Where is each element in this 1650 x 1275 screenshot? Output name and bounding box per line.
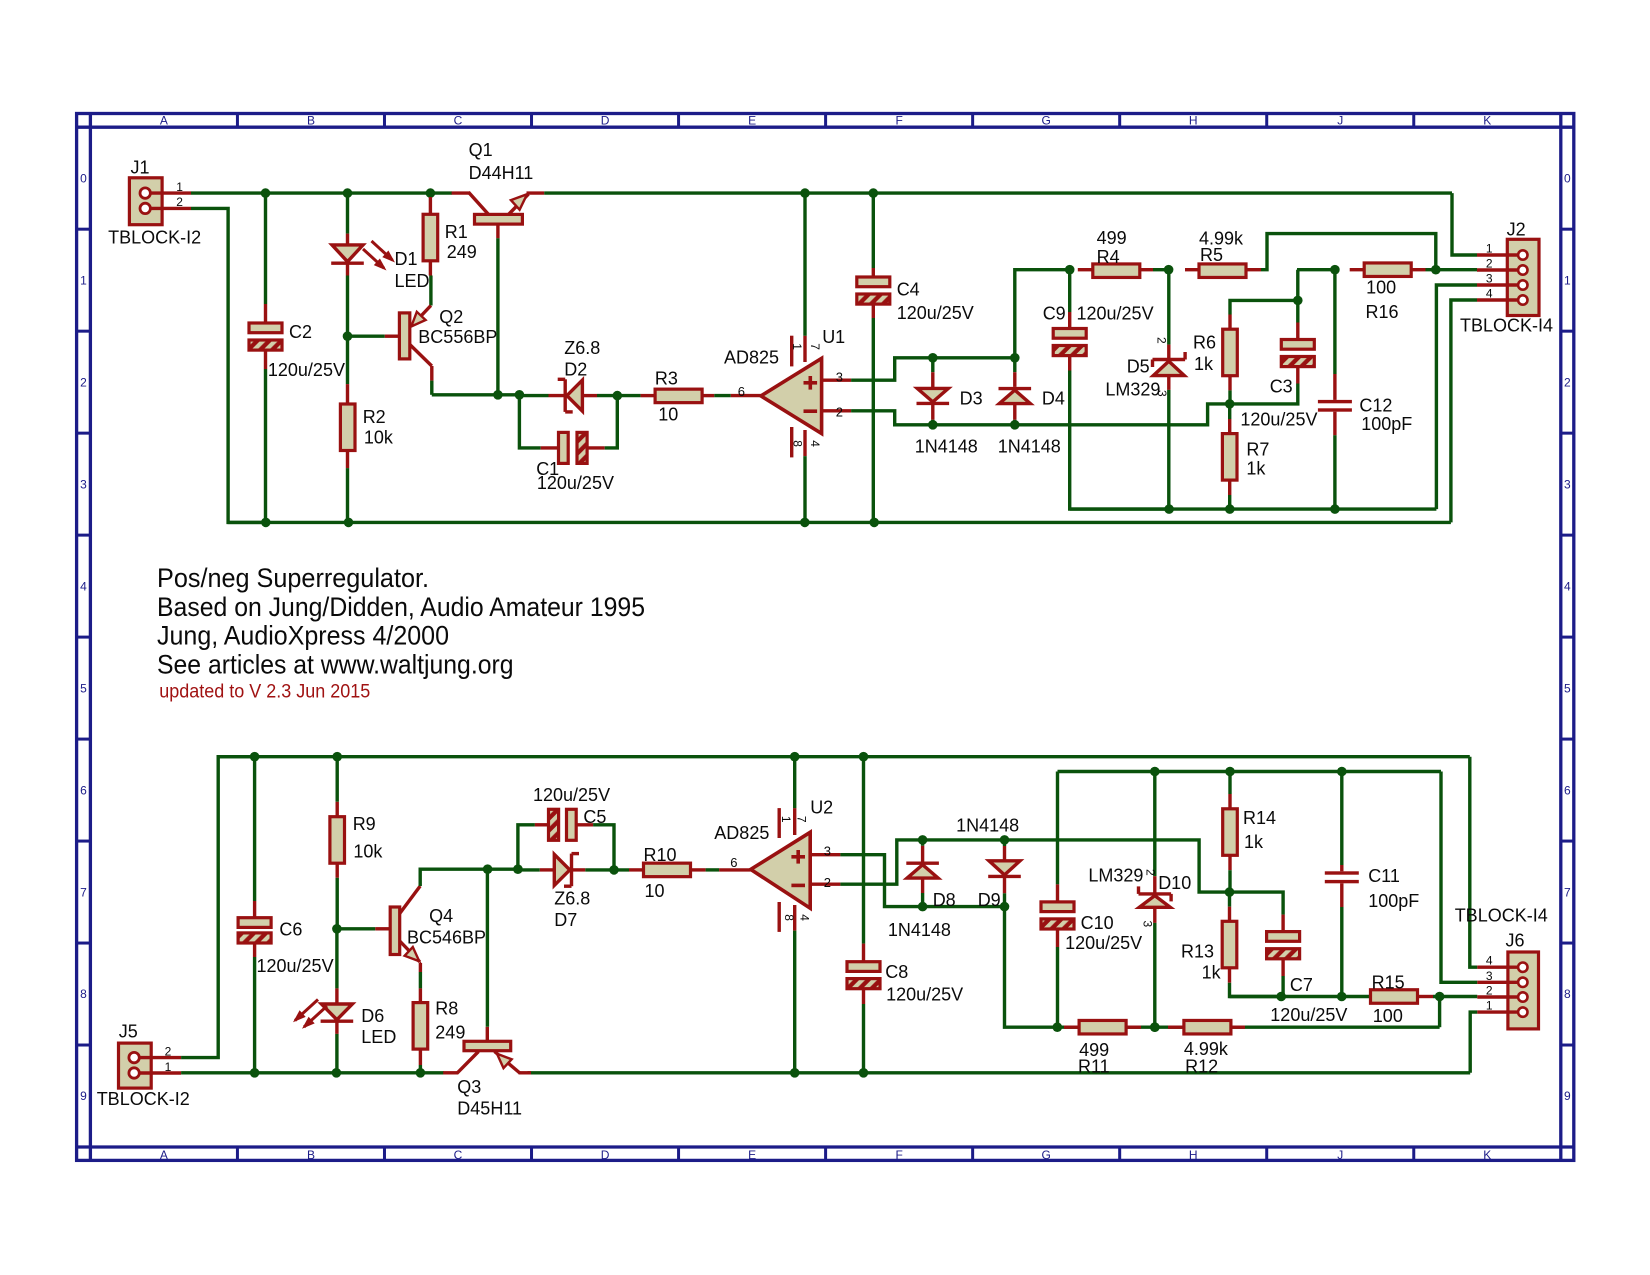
svg-text:R5: R5: [1200, 245, 1223, 265]
svg-text:D7: D7: [554, 910, 577, 930]
svg-text:0: 0: [80, 171, 87, 185]
svg-text:C2: C2: [289, 322, 312, 342]
svg-text:H: H: [1189, 1148, 1198, 1162]
svg-text:updated to V 2.3 Jun 2015: updated to V 2.3 Jun 2015: [159, 682, 370, 703]
svg-text:D44H11: D44H11: [469, 163, 534, 183]
svg-text:D1: D1: [395, 249, 418, 269]
svg-text:6: 6: [730, 855, 737, 870]
svg-text:D8: D8: [933, 890, 956, 910]
svg-text:R4: R4: [1097, 247, 1120, 267]
svg-text:AD825: AD825: [714, 823, 769, 843]
svg-text:3: 3: [80, 477, 87, 491]
svg-text:1N4148: 1N4148: [888, 920, 951, 940]
svg-text:1: 1: [165, 1060, 172, 1074]
svg-text:5: 5: [1564, 681, 1571, 695]
svg-text:120u/25V: 120u/25V: [533, 785, 610, 805]
svg-text:C: C: [454, 1148, 463, 1162]
svg-text:Based on Jung/Didden, Audio Am: Based on Jung/Didden, Audio Amateur 1995: [157, 592, 645, 622]
svg-text:J6: J6: [1506, 931, 1525, 951]
svg-text:C12: C12: [1359, 396, 1392, 416]
svg-text:Q2: Q2: [439, 307, 463, 327]
svg-text:R1: R1: [445, 222, 468, 242]
svg-text:D: D: [601, 1148, 610, 1162]
svg-text:K: K: [1483, 1148, 1491, 1162]
svg-text:1N4148: 1N4148: [956, 815, 1019, 835]
svg-text:3: 3: [836, 370, 843, 385]
svg-text:D45H11: D45H11: [457, 1099, 522, 1119]
svg-text:8: 8: [782, 914, 796, 921]
svg-text:TBLOCK-I4: TBLOCK-I4: [1455, 906, 1548, 926]
svg-text:C8: C8: [885, 962, 908, 982]
svg-text:100: 100: [1366, 278, 1396, 298]
svg-text:D5: D5: [1127, 357, 1150, 377]
svg-text:F: F: [895, 1148, 902, 1162]
svg-text:1k: 1k: [1244, 832, 1264, 852]
svg-text:C5: C5: [583, 807, 606, 827]
svg-text:7: 7: [808, 343, 822, 350]
svg-text:D: D: [601, 114, 610, 128]
svg-text:U1: U1: [822, 327, 845, 347]
svg-text:J: J: [1337, 114, 1343, 128]
svg-text:100pF: 100pF: [1368, 891, 1419, 911]
svg-text:TBLOCK-I2: TBLOCK-I2: [97, 1089, 190, 1109]
svg-text:LM329: LM329: [1088, 866, 1143, 886]
svg-text:2: 2: [824, 875, 831, 890]
svg-text:E: E: [748, 114, 756, 128]
svg-text:R10: R10: [644, 845, 677, 865]
svg-text:2: 2: [1144, 869, 1158, 876]
svg-text:A: A: [160, 1148, 168, 1162]
svg-text:C10: C10: [1081, 913, 1114, 933]
svg-text:4: 4: [1486, 954, 1493, 968]
svg-text:9: 9: [80, 1089, 87, 1103]
svg-text:J: J: [1337, 1148, 1343, 1162]
svg-text:10k: 10k: [353, 842, 383, 862]
svg-text:R16: R16: [1366, 302, 1399, 322]
svg-text:8: 8: [791, 440, 805, 447]
svg-text:1N4148: 1N4148: [998, 436, 1061, 456]
svg-text:5: 5: [80, 681, 87, 695]
svg-text:120u/25V: 120u/25V: [1240, 410, 1317, 430]
svg-text:F: F: [895, 114, 902, 128]
svg-text:1: 1: [1486, 242, 1493, 256]
svg-text:499: 499: [1097, 228, 1127, 248]
svg-text:3: 3: [1486, 272, 1493, 286]
svg-text:10: 10: [645, 881, 665, 901]
svg-text:8: 8: [1564, 987, 1571, 1001]
svg-text:R14: R14: [1243, 808, 1276, 828]
svg-text:A: A: [160, 114, 168, 128]
svg-text:D9: D9: [978, 890, 1001, 910]
svg-text:10: 10: [658, 405, 678, 425]
svg-text:4: 4: [798, 914, 812, 921]
svg-text:H: H: [1189, 114, 1198, 128]
svg-text:1: 1: [779, 816, 793, 823]
svg-text:D10: D10: [1158, 873, 1191, 893]
svg-text:C9: C9: [1043, 304, 1066, 324]
svg-text:TBLOCK-I4: TBLOCK-I4: [1460, 316, 1553, 336]
svg-text:9: 9: [1564, 1089, 1571, 1103]
svg-text:1k: 1k: [1202, 963, 1222, 983]
svg-text:G: G: [1041, 1148, 1050, 1162]
svg-text:See articles at www.waltjung.o: See articles at www.waltjung.org: [157, 649, 514, 679]
svg-text:1k: 1k: [1194, 354, 1214, 374]
svg-text:C11: C11: [1368, 866, 1400, 886]
svg-text:1: 1: [1564, 273, 1571, 287]
svg-text:2: 2: [1486, 984, 1493, 998]
svg-text:R2: R2: [363, 407, 386, 427]
svg-text:1: 1: [1486, 999, 1493, 1013]
svg-text:E: E: [748, 1148, 756, 1162]
svg-text:3: 3: [1141, 921, 1155, 928]
svg-text:2: 2: [176, 195, 183, 209]
svg-text:120u/25V: 120u/25V: [1270, 1005, 1347, 1025]
svg-text:4: 4: [80, 579, 87, 593]
svg-text:10k: 10k: [364, 428, 394, 448]
svg-text:0: 0: [1564, 171, 1571, 185]
svg-text:R13: R13: [1181, 942, 1214, 962]
svg-text:120u/25V: 120u/25V: [897, 303, 974, 323]
svg-text:J1: J1: [131, 158, 150, 178]
svg-text:6: 6: [738, 384, 745, 399]
svg-text:2: 2: [1155, 337, 1169, 344]
svg-text:3: 3: [1564, 477, 1571, 491]
svg-text:TBLOCK-I2: TBLOCK-I2: [108, 228, 201, 248]
svg-text:J2: J2: [1507, 220, 1526, 240]
svg-text:120u/25V: 120u/25V: [268, 360, 345, 380]
svg-text:U2: U2: [810, 798, 833, 818]
svg-text:R6: R6: [1193, 333, 1216, 353]
svg-text:R12: R12: [1185, 1057, 1218, 1077]
svg-text:J5: J5: [119, 1021, 138, 1041]
svg-text:Q3: Q3: [457, 1077, 481, 1097]
svg-text:120u/25V: 120u/25V: [1065, 933, 1142, 953]
svg-text:249: 249: [435, 1023, 465, 1043]
svg-text:Q1: Q1: [469, 140, 493, 160]
svg-text:G: G: [1041, 114, 1050, 128]
svg-text:1k: 1k: [1246, 459, 1266, 479]
svg-text:C3: C3: [1270, 377, 1293, 397]
svg-text:2: 2: [836, 404, 843, 419]
svg-text:3: 3: [824, 843, 831, 858]
svg-text:LED: LED: [361, 1027, 396, 1047]
svg-text:R11: R11: [1078, 1057, 1110, 1077]
svg-text:D6: D6: [361, 1006, 384, 1026]
svg-text:R8: R8: [435, 999, 458, 1019]
svg-text:2: 2: [1564, 375, 1571, 389]
svg-text:C4: C4: [897, 280, 920, 300]
svg-text:100: 100: [1373, 1006, 1403, 1026]
svg-text:8: 8: [80, 987, 87, 1001]
svg-text:120u/25V: 120u/25V: [257, 956, 334, 976]
svg-text:R15: R15: [1372, 973, 1405, 993]
svg-text:Jung, AudioXpress 4/2000: Jung, AudioXpress 4/2000: [157, 621, 449, 651]
svg-text:LM329: LM329: [1105, 380, 1160, 400]
svg-text:2: 2: [80, 375, 87, 389]
svg-text:7: 7: [794, 816, 808, 823]
svg-text:6: 6: [1564, 783, 1571, 797]
svg-text:AD825: AD825: [724, 348, 779, 368]
svg-text:Q4: Q4: [429, 906, 453, 926]
svg-text:120u/25V: 120u/25V: [1077, 304, 1154, 324]
svg-text:2: 2: [1486, 257, 1493, 271]
svg-text:LED: LED: [395, 271, 430, 291]
svg-text:7: 7: [1564, 885, 1571, 899]
svg-text:D3: D3: [960, 389, 983, 409]
svg-text:C: C: [454, 114, 463, 128]
svg-text:4: 4: [808, 440, 822, 447]
svg-text:C7: C7: [1290, 975, 1313, 995]
svg-text:1N4148: 1N4148: [915, 436, 978, 456]
svg-text:D2: D2: [564, 359, 587, 379]
svg-text:3: 3: [1155, 390, 1169, 397]
svg-text:Pos/neg Superregulator.: Pos/neg Superregulator.: [157, 563, 429, 593]
svg-text:1: 1: [790, 343, 804, 350]
svg-text:Z6.8: Z6.8: [564, 338, 600, 358]
svg-text:1: 1: [176, 180, 183, 194]
svg-text:120u/25V: 120u/25V: [537, 473, 614, 493]
svg-text:R9: R9: [353, 814, 376, 834]
svg-text:100pF: 100pF: [1361, 414, 1412, 434]
svg-text:6: 6: [80, 783, 87, 797]
svg-text:3: 3: [1486, 969, 1493, 983]
svg-text:R7: R7: [1246, 440, 1269, 460]
svg-text:7: 7: [80, 885, 87, 899]
svg-text:B: B: [307, 114, 315, 128]
svg-text:4: 4: [1486, 287, 1493, 301]
svg-text:1: 1: [80, 273, 87, 287]
svg-text:4: 4: [1564, 579, 1571, 593]
svg-text:Z6.8: Z6.8: [554, 889, 590, 909]
svg-text:2: 2: [165, 1045, 172, 1059]
svg-text:R3: R3: [655, 368, 678, 388]
svg-text:120u/25V: 120u/25V: [886, 985, 963, 1005]
svg-text:BC556BP: BC556BP: [418, 327, 497, 347]
svg-text:C6: C6: [279, 920, 302, 940]
svg-text:249: 249: [447, 242, 477, 262]
svg-text:BC546BP: BC546BP: [407, 928, 486, 948]
svg-text:K: K: [1483, 114, 1491, 128]
svg-text:B: B: [307, 1148, 315, 1162]
svg-text:D4: D4: [1042, 389, 1065, 409]
